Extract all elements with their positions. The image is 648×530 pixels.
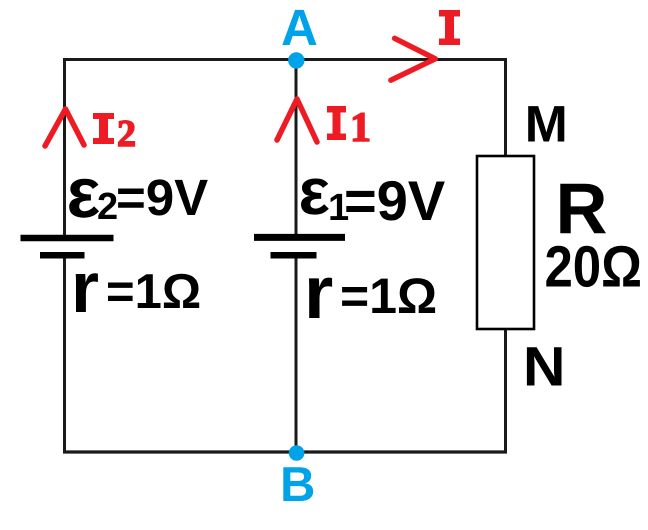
battery E2 negative plate [40, 252, 85, 259]
battery E1 negative plate [271, 252, 317, 259]
battery E2 positive plate [21, 235, 114, 242]
wire: middle branch lower segment [295, 258, 298, 452]
label E1 subscript [330, 194, 348, 220]
node A junction dot [288, 52, 304, 68]
node B junction dot [289, 445, 305, 461]
battery E1 positive plate [254, 234, 345, 241]
label r1 value =1ohm [342, 278, 435, 313]
current arrow I (top right, pointing right) [391, 38, 435, 80]
wire: left branch upper segment [63, 58, 66, 235]
label E2 epsilon [69, 179, 99, 218]
current arrow I1 (middle branch, pointing up) [277, 99, 317, 142]
label r1 [309, 278, 332, 318]
resistor label R [560, 184, 606, 234]
terminal label M [528, 106, 564, 141]
resistor R body [477, 156, 534, 329]
wire: right branch upper segment [504, 58, 507, 156]
node A label [282, 10, 316, 45]
label r2 [76, 273, 98, 312]
label E2 value =9V [118, 179, 208, 215]
node B label [283, 467, 313, 501]
label E1 value =9V [346, 181, 445, 221]
resistor value 20ohm [546, 246, 640, 287]
wire: left branch lower segment [63, 258, 66, 454]
label E1 epsilon [301, 179, 329, 215]
current label I1 letter I [327, 106, 346, 140]
wire: top rail from left corner through node A to right corner [63, 58, 506, 61]
wire: right branch lower segment [504, 329, 507, 454]
label I1 subscript [353, 113, 368, 141]
wire: bottom rail through node B [63, 450, 507, 453]
label E2 subscript [98, 193, 116, 220]
label I2 subscript [119, 121, 135, 146]
label r2 value =1ohm [108, 274, 199, 308]
current arrow I2 (left branch, pointing up) [45, 109, 84, 146]
terminal label N [527, 347, 562, 385]
wire: middle branch upper segment [295, 60, 298, 234]
current label I2 letter I [93, 113, 114, 144]
current label I [439, 10, 460, 45]
